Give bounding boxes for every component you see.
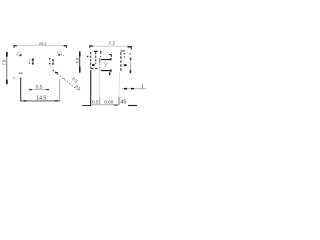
left view: middle dimension line 5.5	[29, 89, 49, 90]
right view: dot x100	[100, 56, 101, 57]
left view: two small dots above corner line	[19, 73, 20, 74]
bottom baseline: grey segment under 0.5	[92, 104, 99, 106]
bottom baseline: left dark segment	[82, 105, 91, 107]
right view: center vertical dashed lower	[99, 64, 101, 72]
right view: dark blob right cluster	[124, 64, 127, 66]
left view: dot near top of right extension	[63, 78, 64, 79]
left view: leader arrow blob	[55, 72, 58, 74]
right view: short vertical dash x100	[100, 51, 101, 54]
svg-text:0.60: 0.60	[104, 99, 114, 104]
right view: small dot left	[87, 56, 89, 58]
svg-text:5.5: 5.5	[36, 85, 43, 90]
right view: extension line x119.5	[118, 72, 120, 86]
right view: top dimension line	[89, 45, 134, 49]
svg-text:5.8: 5.8	[74, 57, 79, 63]
right view: dashed vertical line far-left upper	[90, 52, 92, 69]
left view: hole circle top-right	[58, 51, 65, 56]
right view: small extension dash near right edge	[142, 84, 144, 89]
svg-text:14.5: 14.5	[36, 96, 46, 102]
right view: center vertical line upper	[99, 58, 101, 63]
left view: faint centerline below right slot	[49, 65, 51, 76]
svg-text:7.2: 7.2	[109, 40, 116, 45]
bottom baseline: dark segment right of 0.60	[113, 104, 118, 106]
left view: top dimension line	[13, 45, 67, 48]
right view: separator bar left of 45 text	[118, 86, 120, 98]
left view: small dot left of corner	[13, 77, 14, 78]
left view: bottom dimension line 14.5	[20, 100, 60, 101]
left view: small dash left edge	[14, 77, 16, 80]
left view: left vertical dimension line	[6, 52, 8, 84]
left view: slot left with dotted centerline	[29, 58, 34, 64]
svg-text:0.5: 0.5	[92, 99, 99, 104]
right view: small corner mark above box	[109, 55, 111, 58]
right view: box bottom edge	[101, 69, 112, 72]
left view: bottom-left vertical edge	[20, 78, 22, 102]
right view: center extension line down to text	[99, 72, 101, 98]
left view: hole circle top-left	[16, 52, 22, 56]
left view: leader start dot	[53, 70, 55, 72]
right view: solid vertical line far-left lower	[90, 70, 92, 105]
right view: dashed vertical right cluster	[120, 52, 122, 72]
svg-text:2: 2	[105, 63, 107, 67]
svg-text:25.2: 25.2	[39, 41, 47, 46]
right view: dark blob in left cluster	[92, 64, 95, 66]
svg-text:7.9: 7.9	[1, 59, 6, 65]
left view: diagonal dotted leader	[55, 72, 79, 91]
svg-text:45: 45	[120, 100, 126, 106]
right view: bottom right dimension line	[122, 88, 146, 90]
right view: dashed horizontal in left cluster	[91, 68, 100, 70]
left view: bottom-right vertical extension line	[59, 79, 61, 101]
right view: top dash right cluster	[121, 50, 125, 51]
right view: dots right of dashed vertical	[124, 53, 125, 54]
right view: tick below box corner	[109, 72, 110, 75]
right view: top tick dash	[94, 51, 98, 52]
left view: slot right with dotted centerline	[49, 58, 54, 65]
right view: dots inside box	[104, 62, 105, 63]
bottom baseline: dark dash right of 45	[128, 105, 137, 107]
left view: right vertical dimension line	[79, 51, 80, 73]
right view: box top edge	[101, 58, 112, 60]
right view: dashed vertical line second	[95, 52, 97, 64]
bottom baseline: grey segment under 0.60	[100, 104, 113, 106]
right view: vertical outline x130.6 with dark caps	[130, 58, 132, 74]
